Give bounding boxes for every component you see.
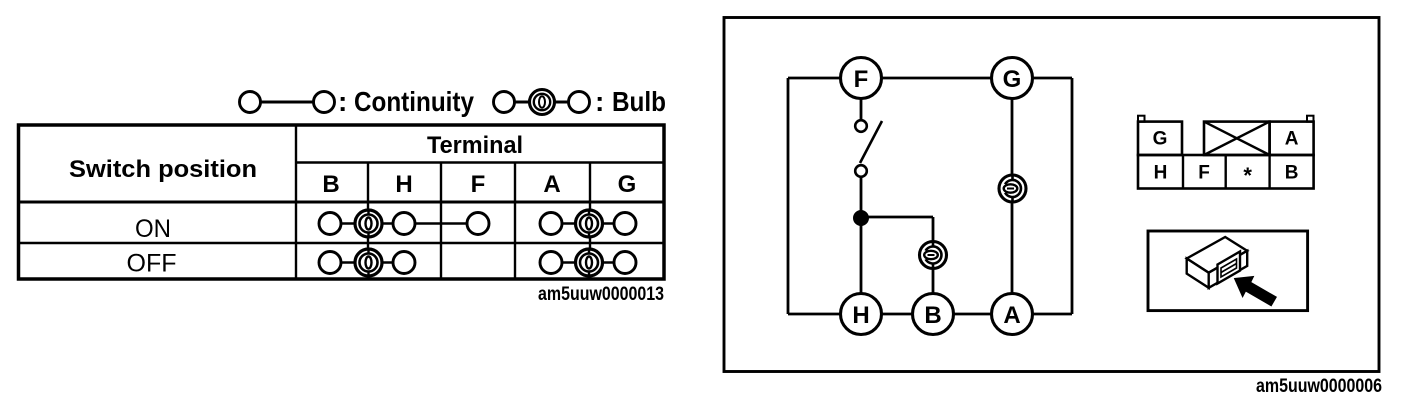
bulb L2 (below G) [999,175,1026,202]
connector pinout: cell A [1270,122,1314,155]
legend bulb symbol: wire [514,101,568,104]
OFF row: wire A-G [551,261,625,264]
legend bulb symbol: right circle [569,92,590,113]
terminal F [841,58,882,99]
svg-text:B: B [322,171,339,198]
table row line: ON/OFF divider [19,242,665,244]
connector pinout: divider F|* [1224,155,1226,189]
svg-text:am5uuw0000013: am5uuw0000013 [538,284,664,305]
ON row: wire H-F [404,222,478,225]
svg-text:B: B [924,302,941,329]
svg-text:F: F [1198,163,1210,184]
ON row: circle at B [319,213,341,235]
ON row: circle at G [614,213,636,235]
svg-text:Terminal: Terminal [427,132,523,159]
connector pinout: bottom row frame [1138,155,1314,189]
OFF row: bulb between B and H [355,249,382,276]
wire: circuit loop left [787,78,790,314]
wire: G terminal to bulb L2 [1011,98,1014,176]
connector pinout: right nub [1307,116,1314,122]
switch SW1: lower contact [855,165,867,177]
table column line: switch position | terminal [295,125,297,279]
svg-text:OFF: OFF [127,250,177,278]
table row line: header bottom [19,201,665,204]
wire: F terminal to switch [860,98,863,121]
table column line: A|G [589,163,591,280]
svg-text:Switch position: Switch position [69,156,257,183]
svg-text:F: F [854,66,869,93]
svg-text::: : [595,86,604,117]
OFF row: circle at A [540,252,562,274]
legend bulb symbol: left circle [494,92,515,113]
relay illustration box [1148,231,1308,311]
ON row: wire B-H [330,222,404,225]
svg-text:am5uuw0000006: am5uuw0000006 [1256,376,1382,397]
svg-text:G: G [1003,66,1022,93]
OFF row: wire B-H [330,261,404,264]
table column line: B|H [367,163,369,280]
figure outer frame [724,18,1379,372]
connector pinout: divider H|F [1182,155,1184,189]
wire: branch down to bulb L1 [932,217,935,243]
switch SW1: upper contact [855,120,867,132]
junction node [854,211,869,226]
table row line: terminal header bottom [296,161,664,163]
connector pinout: divider *|B [1268,155,1270,189]
wire: bulb L2 to A terminal [1011,202,1014,295]
wire: circuit loop top [788,77,1072,80]
svg-text::: : [338,86,347,117]
connector pinout: cell G [1138,122,1182,155]
svg-text:A: A [1003,302,1020,329]
svg-text:G: G [1153,129,1168,150]
ON row: bulb between A and G [576,210,603,237]
legend continuity symbol: wire [260,101,314,104]
svg-text:F: F [471,171,486,198]
ON row: wire A-G [551,222,625,225]
relay body: top face [1187,237,1248,273]
relay pointer arrow [1235,277,1277,306]
ON row: circle at F [467,213,489,235]
terminal A [992,294,1033,335]
wire: circuit loop bottom [788,313,1072,316]
svg-text:*: * [1243,163,1252,188]
ON row: circle at A [540,213,562,235]
legend bulb symbol: bulb [530,90,555,115]
legend continuity symbol: right circle [314,92,335,113]
terminal H [841,294,882,335]
svg-text:ON: ON [135,215,171,243]
svg-text:A: A [543,171,560,198]
table outer border [19,125,665,279]
svg-text:Continuity: Continuity [354,86,474,117]
OFF row: circle at H [393,252,415,274]
svg-text:H: H [395,171,412,198]
svg-text:G: G [618,171,637,198]
wire: bulb L1 to B terminal [932,269,935,296]
table column line: F|A [514,163,516,280]
relay body: left face [1187,259,1209,288]
table column line: H|F [440,163,442,280]
svg-text:H: H [1154,163,1168,184]
terminal B [913,294,954,335]
connector pinout: left nub [1138,116,1145,122]
connector pinout: crossed cell [1204,122,1270,155]
svg-text:H: H [852,302,869,329]
OFF row: circle at B [319,252,341,274]
ON row: bulb between B and H [355,210,382,237]
svg-text:A: A [1285,129,1299,150]
switch SW1: blade [860,121,882,163]
wire: circuit loop right [1071,78,1074,314]
legend continuity symbol: left circle [240,92,261,113]
terminal G [992,58,1033,99]
relay connector detail [1218,252,1241,284]
bulb L1 (above B) [920,242,947,269]
OFF row: bulb between A and G [576,249,603,276]
wire: node to H terminal [860,218,863,295]
relay body: front face [1209,251,1248,288]
svg-text:B: B [1285,163,1299,184]
wire: switch to node [860,177,863,218]
wire: node to bulb branch horizontal [861,216,933,219]
OFF row: circle at G [614,252,636,274]
ON row: circle at H [393,213,415,235]
svg-text:Bulb: Bulb [612,86,666,117]
